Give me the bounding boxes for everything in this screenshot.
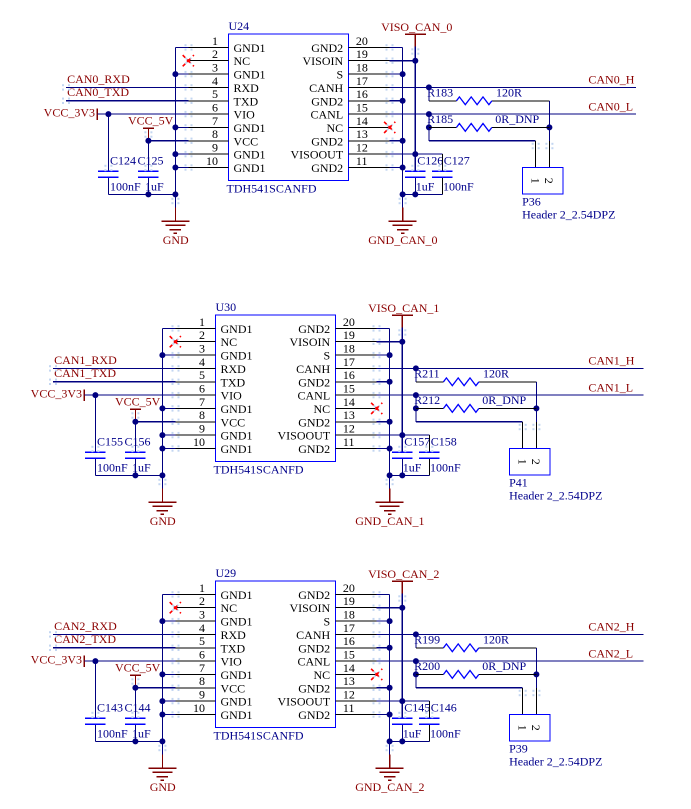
junction rail / bus <box>387 738 393 744</box>
junction CANH / R199 tap <box>413 631 419 637</box>
capacitor C126 plates <box>405 170 425 172</box>
svg-text:1: 1 <box>516 459 530 465</box>
svg-text:5: 5 <box>199 368 205 382</box>
IC U29 pin 12 (VISOOUT) stub, number, name <box>335 700 376 702</box>
svg-text:CAN0_H: CAN0_H <box>588 73 634 87</box>
ERC connection marks <box>185 44 187 46</box>
resistor R212 leads <box>416 407 444 409</box>
svg-text:1: 1 <box>516 725 530 731</box>
capacitor C125 pins <box>147 141 149 172</box>
svg-text:15: 15 <box>343 648 355 662</box>
junction CANL / R185 tap <box>426 111 432 117</box>
IC U30 pin 11 (GND2) stub, number, name <box>335 448 376 450</box>
svg-text:GND2: GND2 <box>298 322 330 336</box>
svg-text:GND1: GND1 <box>221 708 253 722</box>
wire pin9 to GND bus <box>162 700 175 702</box>
IC U29 pin 5 (TXD) stub, number, name <box>176 647 216 649</box>
ERC connection marks <box>172 325 174 327</box>
junction VISO bus / pin19 <box>412 58 418 64</box>
junction VISO bus / pin12 <box>399 698 405 704</box>
IC U24 body (TDH541SCANFD) <box>229 34 349 180</box>
ground GND symbol <box>148 501 176 503</box>
ground GND_CAN_0 red stub <box>402 208 404 222</box>
wire VCC_3V3 to pin6 VIO <box>84 660 175 662</box>
resistor R199 leads <box>416 647 444 649</box>
capacitor C158 plates <box>419 451 439 453</box>
svg-text:S: S <box>337 68 344 82</box>
wire pin20 to isolated-ground bus <box>377 327 390 329</box>
svg-text:GND2: GND2 <box>298 708 330 722</box>
power port VCC_5V bar symbol <box>130 408 141 410</box>
wire pin16 to isolated-ground bus <box>377 381 390 383</box>
wire bottom rail left (caps to GND bus) <box>108 193 175 195</box>
IC U24 pin 19 (VISOIN) stub, number, name <box>348 60 389 62</box>
IC U30 pin 17 (CANH) stub, number, name <box>335 367 376 369</box>
svg-text:R211: R211 <box>414 366 440 380</box>
IC U24 pin 6 (VIO) stub, number, name <box>189 113 229 115</box>
wire CANL branch horizontal to header pin1 <box>416 687 523 689</box>
junction GND bus / pin9 <box>159 698 165 704</box>
svg-text:R212: R212 <box>414 393 440 407</box>
wire right isolated-ground bus vertical <box>402 47 404 207</box>
junction VCC_3V3 / CC143 <box>92 658 98 664</box>
no-connect marker on pin 2 of U29 <box>172 605 178 611</box>
svg-text:16: 16 <box>356 87 368 101</box>
IC U30 pin 19 (VISOIN) stub, number, name <box>335 341 376 343</box>
svg-text:GND: GND <box>150 780 176 794</box>
junction VCC_3V3 / CC155 <box>92 392 98 398</box>
no-connect marker on pin 2 of U30 <box>172 339 178 345</box>
svg-text:CAN2_RXD: CAN2_RXD <box>54 619 117 633</box>
svg-text:VIO: VIO <box>221 389 243 403</box>
connector P36 body <box>523 167 564 194</box>
wire pin7 to GND bus <box>162 407 175 409</box>
svg-text:2: 2 <box>542 178 556 184</box>
wire pin10 to GND bus <box>175 167 188 169</box>
IC U29 pin 10 (GND1) stub, number, name <box>176 714 216 716</box>
svg-text:5: 5 <box>212 87 218 101</box>
wire net CAN1_H (pin17 CANH) <box>377 367 644 369</box>
wire pin9 to GND bus <box>175 153 188 155</box>
wire net CAN2_TXD (pin5 TXD) <box>53 647 176 649</box>
IC U24 pin 3 (GND1) stub, number, name <box>189 73 229 75</box>
wire VISO_CAN_2 vertical bus <box>401 594 403 719</box>
junction rail / GND bus <box>159 738 165 744</box>
junction rail / C125 <box>145 191 151 197</box>
junction rail / bus <box>400 191 406 197</box>
ground GND_CAN_1 red stub <box>389 489 391 503</box>
svg-text:17: 17 <box>343 355 355 369</box>
svg-text:GND1: GND1 <box>234 68 266 82</box>
svg-text:GND1: GND1 <box>221 615 253 629</box>
junction bus / pin13 <box>387 419 393 425</box>
IC U30 pin 2 (NC) stub, number, name <box>176 341 216 343</box>
junction CANH / R211 tap <box>413 365 419 371</box>
svg-text:7: 7 <box>199 395 205 409</box>
wire pin10 to GND bus <box>162 714 175 716</box>
wire pin1 to GND bus <box>162 593 175 595</box>
svg-text:GND1: GND1 <box>234 41 266 55</box>
junction VCC_5V / pin8 <box>132 419 138 425</box>
IC U29 pin 11 (GND2) stub, number, name <box>335 714 376 716</box>
svg-text:CAN1_L: CAN1_L <box>588 380 633 394</box>
wire pin19 VISOIN to VISO bus <box>377 607 403 609</box>
IC U29 pin 16 (GND2) stub, number, name <box>335 647 376 649</box>
IC U29 pin 13 (GND2) stub, number, name <box>335 687 376 689</box>
svg-text:C127: C127 <box>444 153 470 167</box>
wire CANL tap down through R200 lead <box>415 661 417 688</box>
capacitor C145 plates <box>392 717 412 719</box>
svg-text:RXD: RXD <box>234 81 260 95</box>
resistor R199 body <box>444 644 479 652</box>
wire VISO_CAN_1 vertical bus <box>401 328 403 453</box>
wire VCC_5V to pin8 VCC <box>135 687 175 689</box>
svg-text:20: 20 <box>343 581 355 595</box>
wire pin20 to isolated-ground bus <box>377 593 390 595</box>
capacitor C145 pins <box>401 701 403 718</box>
junction rail / GND bus <box>159 472 165 478</box>
connector P39 body <box>510 714 550 741</box>
svg-text:TXD: TXD <box>234 94 259 108</box>
wire VISO_CAN_0 vertical bus <box>414 47 416 172</box>
wire pin16 to isolated-ground bus <box>390 100 403 102</box>
wire pin18 to isolated-ground bus <box>377 354 390 356</box>
ground GND_CAN_2 red stub <box>389 755 391 769</box>
svg-text:VISOOUT: VISOOUT <box>278 429 331 443</box>
wire pin3 to GND bus <box>162 354 175 356</box>
junction rail / GND bus <box>172 191 178 197</box>
svg-text:VIO: VIO <box>221 655 243 669</box>
svg-text:C155: C155 <box>97 434 123 448</box>
svg-text:100nF: 100nF <box>97 461 128 475</box>
junction rail / C144 <box>132 738 138 744</box>
svg-text:GND1: GND1 <box>221 429 253 443</box>
IC U30 pin 16 (GND2) stub, number, name <box>335 381 376 383</box>
svg-text:18: 18 <box>343 608 355 622</box>
svg-text:13: 13 <box>343 674 355 688</box>
svg-text:VISO_CAN_0: VISO_CAN_0 <box>381 20 452 34</box>
resistor R212 body <box>444 405 479 413</box>
junction rail / C126 <box>412 191 418 197</box>
wire pin19 VISOIN to VISO bus <box>377 341 403 343</box>
svg-text:13: 13 <box>343 408 355 422</box>
IC U29 pin 2 (NC) stub, number, name <box>176 607 216 609</box>
svg-text:CAN0_RXD: CAN0_RXD <box>67 72 130 86</box>
no-connect marker on pin 14 of U30 <box>374 405 380 411</box>
svg-text:U29: U29 <box>216 566 237 580</box>
wire VCC_3V3 to pin6 VIO <box>84 394 175 396</box>
capacitor C143 plates <box>85 717 105 719</box>
svg-text:7: 7 <box>212 114 218 128</box>
svg-text:100nF: 100nF <box>110 180 141 194</box>
svg-text:NC: NC <box>314 402 331 416</box>
svg-text:VISOIN: VISOIN <box>290 601 331 615</box>
wire CANL tap down through R212 lead <box>415 395 417 422</box>
IC U29 pin 15 (CANL) stub, number, name <box>335 660 376 662</box>
wire net CAN1_TXD (pin5 TXD) <box>53 381 176 383</box>
wire left GND bus vertical <box>174 47 176 207</box>
junction rail / C156 <box>132 472 138 478</box>
junction bus / pin18 <box>387 352 393 358</box>
IC U24 pin 5 (TXD) stub, number, name <box>189 100 229 102</box>
svg-text:CAN1_RXD: CAN1_RXD <box>54 353 117 367</box>
ground GND red stub <box>161 755 163 769</box>
svg-text:6: 6 <box>212 101 218 115</box>
svg-text:GND1: GND1 <box>221 442 253 456</box>
svg-text:GND1: GND1 <box>234 161 266 175</box>
capacitor C125 plates <box>138 170 158 172</box>
IC U24 pin 8 (VCC) stub, number, name <box>189 140 229 142</box>
capacitor C124 plates <box>98 170 118 172</box>
svg-text:18: 18 <box>343 342 355 356</box>
svg-text:0R_DNP: 0R_DNP <box>482 393 526 407</box>
wire net CAN0_RXD (pin4 RXD) <box>66 86 189 88</box>
wire pin11 to isolated-ground bus <box>377 714 390 716</box>
svg-text:14: 14 <box>343 395 355 409</box>
svg-text:GND1: GND1 <box>234 121 266 135</box>
svg-text:VISO_CAN_2: VISO_CAN_2 <box>368 567 439 581</box>
svg-text:GND1: GND1 <box>221 349 253 363</box>
IC U30 pin 13 (GND2) stub, number, name <box>335 421 376 423</box>
svg-text:1uF: 1uF <box>416 180 435 194</box>
wire CANH tap down to R211 <box>415 368 417 381</box>
junction VCC_5V / pin8 <box>145 138 151 144</box>
wire pin20 to isolated-ground bus <box>390 46 403 48</box>
wire left GND bus vertical <box>161 328 163 488</box>
svg-text:NC: NC <box>221 601 238 615</box>
svg-text:VISOOUT: VISOOUT <box>278 695 331 709</box>
junction CANL / R212 tap <box>413 392 419 398</box>
svg-text:18: 18 <box>356 61 368 75</box>
no-connect marker on pin 14 of U24 <box>387 124 393 130</box>
svg-text:U24: U24 <box>229 19 250 33</box>
svg-text:17: 17 <box>356 74 368 88</box>
connector P41 pin 2 wire <box>535 422 537 449</box>
svg-text:Header 2_2.54DPZ: Header 2_2.54DPZ <box>522 207 615 221</box>
svg-text:VCC_5V: VCC_5V <box>115 395 161 409</box>
junction GND bus / pin7 <box>172 124 178 130</box>
wire bottom rail left (caps to GND bus) <box>95 474 162 476</box>
svg-text:NC: NC <box>234 54 251 68</box>
svg-text:GND2: GND2 <box>311 94 343 108</box>
svg-text:14: 14 <box>356 114 368 128</box>
ERC connection marks <box>172 591 174 593</box>
wire pin11 to isolated-ground bus <box>390 167 403 169</box>
svg-text:100nF: 100nF <box>97 727 128 741</box>
svg-text:CANL: CANL <box>298 389 331 403</box>
capacitor C155 plates <box>85 451 105 453</box>
wire pin13 to isolated-ground bus <box>377 421 390 423</box>
svg-text:GND1: GND1 <box>221 322 253 336</box>
svg-text:C158: C158 <box>431 434 457 448</box>
svg-text:VISOOUT: VISOOUT <box>291 148 344 162</box>
svg-text:2: 2 <box>199 594 205 608</box>
svg-text:2: 2 <box>529 459 543 465</box>
junction bus / pin13 <box>400 138 406 144</box>
IC U24 pin 15 (CANL) stub, number, name <box>348 113 389 115</box>
wire left GND bus vertical <box>161 594 163 754</box>
svg-text:GND1: GND1 <box>221 695 253 709</box>
ground GND symbol <box>148 767 176 769</box>
IC U29 pin 17 (CANH) stub, number, name <box>335 633 376 635</box>
junction VISO bus / pin12 <box>412 151 418 157</box>
wire net CAN0_H (pin17 CANH) <box>390 86 636 88</box>
junction GND bus / pin9 <box>159 432 165 438</box>
svg-text:6: 6 <box>199 648 205 662</box>
svg-text:VCC: VCC <box>221 681 246 695</box>
power port VCC_5V bar symbol <box>143 127 154 129</box>
svg-text:NC: NC <box>314 668 331 682</box>
svg-text:13: 13 <box>356 127 368 141</box>
svg-text:3: 3 <box>199 608 205 622</box>
svg-text:Header 2_2.54DPZ: Header 2_2.54DPZ <box>509 754 602 768</box>
junction GND bus / pin10 <box>159 712 165 718</box>
capacitor C144 pins <box>134 688 136 719</box>
svg-text:GND2: GND2 <box>311 161 343 175</box>
wire pin13 to isolated-ground bus <box>390 140 403 142</box>
svg-text:GND: GND <box>163 233 189 247</box>
IC U24 pin 1 (GND1) stub, number, name <box>189 46 229 48</box>
junction bus / pin18 <box>387 618 393 624</box>
svg-text:1: 1 <box>212 34 218 48</box>
IC U29 body (TDH541SCANFD) <box>216 581 336 727</box>
IC U30 pin 18 (S) stub, number, name <box>335 354 376 356</box>
svg-text:VIO: VIO <box>234 108 256 122</box>
svg-text:GND2: GND2 <box>311 41 343 55</box>
ground GND_CAN_0 symbol <box>389 220 417 222</box>
svg-text:R199: R199 <box>414 632 440 646</box>
junction R212 left lead <box>413 405 419 411</box>
svg-text:11: 11 <box>356 154 368 168</box>
wire net CAN1_L (pin15 CANL) <box>377 394 644 396</box>
resistor R200 body <box>444 671 479 679</box>
wire pin1 to GND bus <box>175 46 188 48</box>
wire pin16 to isolated-ground bus <box>377 647 390 649</box>
wire pin10 to GND bus <box>162 448 175 450</box>
no-connect marker on pin 14 of U29 <box>374 671 380 677</box>
junction rail / C145 <box>399 738 405 744</box>
svg-text:GND2: GND2 <box>298 681 330 695</box>
wire pin12 VISOOUT to VISO bus <box>390 153 416 155</box>
svg-text:14: 14 <box>343 661 355 675</box>
IC U24 pin 13 (GND2) stub, number, name <box>348 140 389 142</box>
junction GND bus / pin3 <box>159 352 165 358</box>
junction GND bus / pin3 <box>172 71 178 77</box>
resistor R211 leads <box>416 381 444 383</box>
IC U24 pin 11 (GND2) stub, number, name <box>348 167 389 169</box>
IC U30 pin 9 (GND1) stub, number, name <box>176 434 216 436</box>
wire CANL tap down through R185 lead <box>428 114 430 141</box>
IC U30 pin 3 (GND1) stub, number, name <box>176 354 216 356</box>
IC U29 pin 20 (GND2) stub, number, name <box>335 593 376 595</box>
wire pin7 to GND bus <box>162 673 175 675</box>
wire CANH tap down to R199 <box>415 634 417 647</box>
IC U29 pin 4 (RXD) stub, number, name <box>176 633 216 635</box>
wire C158 top connection <box>402 434 429 436</box>
IC U30 pin 1 (GND1) stub, number, name <box>176 327 216 329</box>
svg-text:2: 2 <box>199 328 205 342</box>
wire R199 right end down to header <box>535 648 537 688</box>
capacitor C156 pins <box>134 422 136 453</box>
svg-text:5: 5 <box>199 634 205 648</box>
svg-text:12: 12 <box>343 688 355 702</box>
wire bottom rail right <box>403 193 443 195</box>
ground GND red stub <box>174 208 176 222</box>
svg-text:GND1: GND1 <box>221 588 253 602</box>
svg-text:19: 19 <box>356 47 368 61</box>
connector P36 pin 1 wire <box>535 141 537 168</box>
ground GND red stub <box>161 489 163 503</box>
junction VCC_3V3 / CC124 <box>105 111 111 117</box>
svg-text:1: 1 <box>199 315 205 329</box>
svg-text:100nF: 100nF <box>443 180 474 194</box>
wire net CAN2_RXD (pin4 RXD) <box>53 633 176 635</box>
svg-text:GND2: GND2 <box>298 375 330 389</box>
svg-text:U30: U30 <box>216 300 237 314</box>
junction bus / pin16 <box>387 379 393 385</box>
junction rail / bus <box>387 472 393 478</box>
svg-text:RXD: RXD <box>221 362 247 376</box>
wire VCC_5V to pin8 VCC <box>148 140 188 142</box>
IC U24 pin 17 (CANH) stub, number, name <box>348 86 389 88</box>
svg-text:15: 15 <box>343 382 355 396</box>
wire net CAN1_RXD (pin4 RXD) <box>53 367 176 369</box>
resistor R185 body <box>457 124 492 132</box>
wire bottom rail left (caps to GND bus) <box>95 740 162 742</box>
wire pin18 to isolated-ground bus <box>377 620 390 622</box>
junction rail / C157 <box>399 472 405 478</box>
svg-text:NC: NC <box>221 335 238 349</box>
svg-text:C124: C124 <box>110 153 136 167</box>
wire CANL branch horizontal to header pin1 <box>429 140 536 142</box>
svg-text:15: 15 <box>356 101 368 115</box>
svg-text:2: 2 <box>212 47 218 61</box>
svg-text:C146: C146 <box>431 700 457 714</box>
capacitor C124 pins <box>107 114 109 171</box>
IC U30 pin 6 (VIO) stub, number, name <box>176 394 216 396</box>
capacitor C126 pins <box>414 154 416 171</box>
wire pin13 to isolated-ground bus <box>377 687 390 689</box>
junction R185 left lead <box>426 124 432 130</box>
junction R212 right / vertical <box>533 405 539 411</box>
junction VCC_5V / pin8 <box>132 685 138 691</box>
wire CANL branch horizontal to header pin1 <box>416 421 523 423</box>
resistor R183 body <box>457 97 492 105</box>
svg-text:GND2: GND2 <box>298 442 330 456</box>
svg-text:120R: 120R <box>483 632 509 646</box>
wire pin1 to GND bus <box>162 327 175 329</box>
svg-text:11: 11 <box>343 701 355 715</box>
junction GND bus / pin10 <box>159 446 165 452</box>
junction GND bus / pin7 <box>159 671 165 677</box>
ground GND symbol <box>161 220 189 222</box>
junction GND bus / pin9 <box>172 151 178 157</box>
svg-text:TDH541SCANFD: TDH541SCANFD <box>227 182 317 196</box>
capacitor C146 pins <box>428 701 430 718</box>
svg-text:17: 17 <box>343 621 355 635</box>
svg-text:1uF: 1uF <box>403 461 422 475</box>
IC U24 pin 16 (GND2) stub, number, name <box>348 100 389 102</box>
svg-text:3: 3 <box>212 61 218 75</box>
wire right isolated-ground bus vertical <box>389 594 391 754</box>
svg-text:3: 3 <box>199 342 205 356</box>
svg-text:9: 9 <box>199 688 205 702</box>
svg-text:GND2: GND2 <box>311 134 343 148</box>
junction bus / pin16 <box>400 98 406 104</box>
power port VISO_CAN_1 bar symbol <box>392 314 413 316</box>
connector P39 pin 1 wire <box>522 688 524 715</box>
junction R185 right / vertical <box>546 124 552 130</box>
